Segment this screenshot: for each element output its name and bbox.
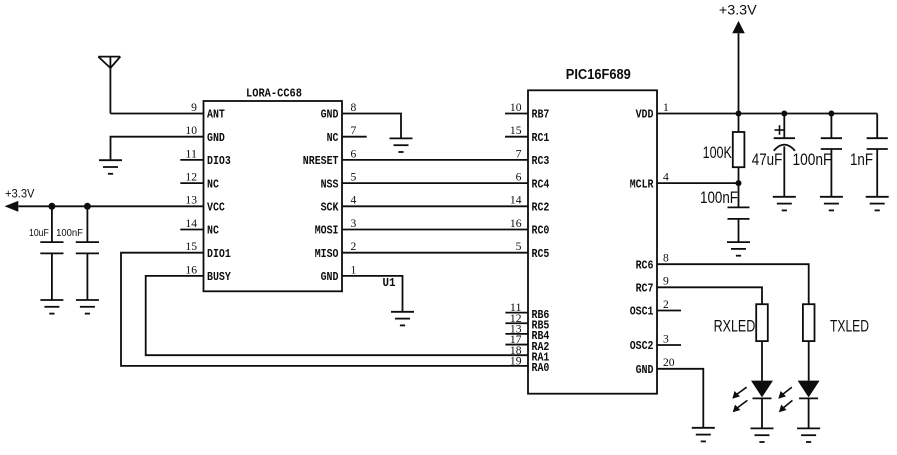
svg-text:10uF: 10uF (29, 228, 49, 239)
capacitor 47uF (752, 114, 795, 197)
svg-text:+3.3V: +3.3V (5, 186, 35, 200)
svg-text:RC5: RC5 (532, 247, 550, 261)
LORA pin 1 GND (321, 264, 357, 284)
junction dot VDD-100nF (828, 111, 834, 117)
TXLED emission arrows (778, 387, 792, 412)
junction dot 100nF (84, 203, 91, 210)
wire LORA DIO1 to PIC RA0 (121, 253, 528, 366)
svg-text:OSC2: OSC2 (630, 339, 654, 353)
wire SCK-RC2 (342, 205, 528, 207)
wire NRESET-RC3 (342, 159, 528, 161)
junction dot MCLR (736, 180, 742, 186)
svg-text:RC4: RC4 (532, 177, 550, 191)
svg-text:13: 13 (185, 195, 197, 207)
svg-text:5: 5 (351, 172, 357, 184)
svg-text:NRESET: NRESET (303, 154, 339, 168)
LORA pin 14 NC (180, 218, 219, 238)
ground under 100nF left (76, 300, 99, 314)
svg-text:DIO1: DIO1 (207, 247, 231, 261)
ground under PIC GND (692, 428, 715, 442)
power +3.3V left arrow (5, 186, 36, 211)
svg-text:11: 11 (185, 148, 197, 160)
wire MISO-RC5 (342, 252, 528, 254)
svg-text:DIO3: DIO3 (207, 154, 231, 168)
svg-text:VDD: VDD (636, 108, 654, 122)
wire LORA GND pin 1 to ground (342, 276, 403, 312)
svg-text:PIC16F689: PIC16F689 (566, 67, 631, 83)
PIC pin 18 RA1 (510, 345, 550, 365)
PIC pin 20 GND (636, 357, 675, 377)
svg-text:RC3: RC3 (532, 154, 550, 168)
ground under 10uF (40, 300, 63, 314)
LORA pin 10 GND (185, 125, 225, 145)
svg-text:12: 12 (185, 172, 197, 184)
svg-text:4: 4 (351, 195, 357, 207)
svg-text:2: 2 (351, 241, 357, 253)
svg-text:15: 15 (185, 241, 197, 253)
svg-text:16: 16 (510, 218, 522, 230)
PIC pin 9 RC7 (636, 276, 669, 296)
ground under 100nF top (820, 197, 843, 211)
svg-text:1: 1 (663, 102, 669, 114)
LORA pin 11 DIO3 (180, 148, 231, 168)
PIC pin 10 RB7 (505, 102, 549, 122)
PIC pin 15 RC1 (505, 125, 549, 145)
resistor TXLED branch (803, 304, 815, 380)
svg-text:NSS: NSS (321, 177, 339, 191)
svg-text:BUSY: BUSY (207, 270, 231, 284)
ground under LORA pin 1 (391, 312, 414, 326)
power +3.3V top arrow (719, 3, 757, 114)
IC LORA-CC68 body (204, 87, 343, 291)
wire VDD rail (657, 113, 877, 115)
capacitor 1nF (850, 114, 888, 197)
PIC pin 2 OSC1 (630, 299, 681, 319)
ground under GND pin 10 (99, 160, 122, 174)
wire MCLR to 100K (657, 182, 739, 184)
svg-text:15: 15 (510, 125, 522, 137)
svg-text:100K: 100K (703, 144, 732, 162)
PIC pin 3 OSC2 (630, 333, 681, 353)
junction dot VDD-47uF (781, 111, 787, 117)
svg-text:100nF: 100nF (700, 189, 738, 207)
LORA pin 13 VCC (185, 195, 225, 215)
LED RXLED (751, 381, 773, 429)
LORA pin 4 SCK (321, 195, 357, 215)
junction dot 10uF (48, 203, 55, 210)
svg-text:8: 8 (663, 253, 669, 265)
ground right of LORA pin 8 (390, 138, 413, 152)
ground under 47uF (773, 197, 796, 211)
svg-text:1nF: 1nF (850, 151, 873, 169)
PIC pin 4 MCLR (630, 172, 669, 192)
svg-text:3: 3 (663, 333, 669, 345)
antenna (98, 57, 120, 114)
capacitor 100nF at MCLR (700, 183, 750, 242)
svg-text:RC7: RC7 (636, 282, 654, 296)
PIC pin 16 RC0 (510, 218, 550, 238)
LORA pin 5 NSS (321, 172, 357, 192)
LORA pin 12 NC (180, 172, 219, 192)
svg-text:7: 7 (351, 125, 357, 137)
ground under MCLR 100nF (727, 242, 750, 256)
svg-text:GND: GND (207, 131, 225, 145)
svg-text:GND: GND (321, 270, 339, 284)
svg-text:LORA-CC68: LORA-CC68 (246, 87, 302, 100)
svg-text:NC: NC (327, 131, 339, 145)
svg-text:MOSI: MOSI (315, 224, 339, 238)
svg-text:3: 3 (351, 218, 357, 230)
wire RC6 to TXLED resistor (657, 264, 809, 304)
svg-text:RA0: RA0 (532, 361, 550, 375)
svg-text:RC0: RC0 (532, 224, 550, 238)
wire antenna to LORA ANT pin 9 (110, 113, 203, 115)
svg-text:9: 9 (663, 276, 669, 288)
PIC pin 14 RC2 (510, 195, 550, 215)
wire PIC GND pin 20 to ground (657, 369, 703, 428)
PIC pin 13 RB4 (505, 324, 549, 344)
svg-text:VCC: VCC (207, 201, 225, 215)
resistor 100K (703, 114, 745, 184)
LED TXLED (798, 381, 820, 429)
svg-text:RC6: RC6 (636, 258, 654, 272)
LORA pin 9 ANT (191, 102, 225, 122)
wire LORA GND pin 10 to ground (111, 137, 204, 161)
LORA pin 6 NRESET (303, 148, 357, 168)
wire NSS-RC4 (342, 182, 528, 184)
svg-text:100nF: 100nF (56, 228, 83, 239)
PIC pin 11 RB6 (505, 302, 549, 322)
svg-text:1: 1 (351, 264, 357, 276)
svg-text:14: 14 (510, 195, 522, 207)
svg-text:8: 8 (351, 102, 357, 114)
svg-text:MISO: MISO (315, 247, 339, 261)
wire +3.3V to LORA VCC pin 13 (18, 205, 203, 207)
svg-text:9: 9 (191, 102, 197, 114)
PIC pin 12 RB5 (505, 313, 549, 333)
PIC pin 17 RA2 (505, 334, 549, 354)
capacitor 100nF left (56, 206, 99, 300)
svg-text:GND: GND (321, 108, 339, 122)
svg-text:+3.3V: +3.3V (719, 3, 757, 18)
svg-text:14: 14 (185, 218, 197, 230)
LORA pin 3 MOSI (315, 218, 357, 238)
svg-text:4: 4 (663, 172, 669, 184)
ground under RXLED (751, 428, 774, 442)
ground under TXLED (797, 428, 820, 442)
capacitor 10uF (29, 206, 64, 300)
svg-text:TXLED: TXLED (830, 318, 869, 336)
svg-text:16: 16 (185, 264, 197, 276)
svg-text:2: 2 (663, 299, 669, 311)
LORA pin 16 BUSY (185, 264, 231, 284)
PIC pin 1 VDD (636, 102, 669, 122)
PIC pin 5 RC5 (516, 241, 550, 261)
svg-text:6: 6 (351, 148, 357, 160)
ground under 1nF (866, 197, 889, 211)
svg-text:100nF: 100nF (793, 151, 832, 169)
svg-text:RXLED: RXLED (714, 318, 756, 336)
svg-text:OSC1: OSC1 (630, 305, 654, 319)
svg-text:5: 5 (516, 241, 522, 253)
svg-text:7: 7 (516, 148, 522, 160)
LORA pin 15 DIO1 (185, 241, 230, 261)
svg-text:RB7: RB7 (532, 108, 550, 122)
junction dot VDD-100K (736, 111, 742, 117)
svg-text:MCLR: MCLR (630, 177, 654, 191)
svg-text:10: 10 (185, 125, 197, 137)
svg-text:U1: U1 (383, 277, 396, 290)
PIC pin 19 RA0 (510, 355, 550, 375)
svg-text:6: 6 (516, 172, 522, 184)
capacitor 100nF top (793, 114, 843, 197)
svg-text:RC1: RC1 (532, 131, 550, 145)
svg-text:10: 10 (510, 102, 522, 114)
svg-text:NC: NC (207, 224, 219, 238)
wire MOSI-RC0 (342, 229, 528, 231)
LORA pin 8 GND (321, 102, 357, 122)
PIC pin 6 RC4 (516, 172, 550, 192)
PIC pin 8 RC6 (636, 253, 669, 273)
svg-text:47uF: 47uF (752, 151, 783, 169)
svg-text:GND: GND (636, 363, 654, 377)
resistor RXLED branch (756, 304, 768, 380)
svg-text:20: 20 (663, 357, 675, 369)
LORA pin 2 MISO (315, 241, 357, 261)
svg-text:RC2: RC2 (532, 201, 550, 215)
svg-text:SCK: SCK (321, 201, 339, 215)
LORA pin 7 NC (327, 125, 367, 145)
wire LORA GND pin 8 to ground (342, 114, 401, 139)
svg-text:NC: NC (207, 177, 219, 191)
PIC pin 7 RC3 (516, 148, 550, 168)
svg-text:19: 19 (510, 355, 522, 367)
wire LORA BUSY to PIC RA1 (146, 276, 528, 355)
RXLED emission arrows (732, 387, 747, 412)
svg-text:ANT: ANT (207, 108, 225, 122)
IC PIC16F689 body (528, 67, 657, 394)
wire RC7 to RXLED resistor (657, 287, 762, 304)
